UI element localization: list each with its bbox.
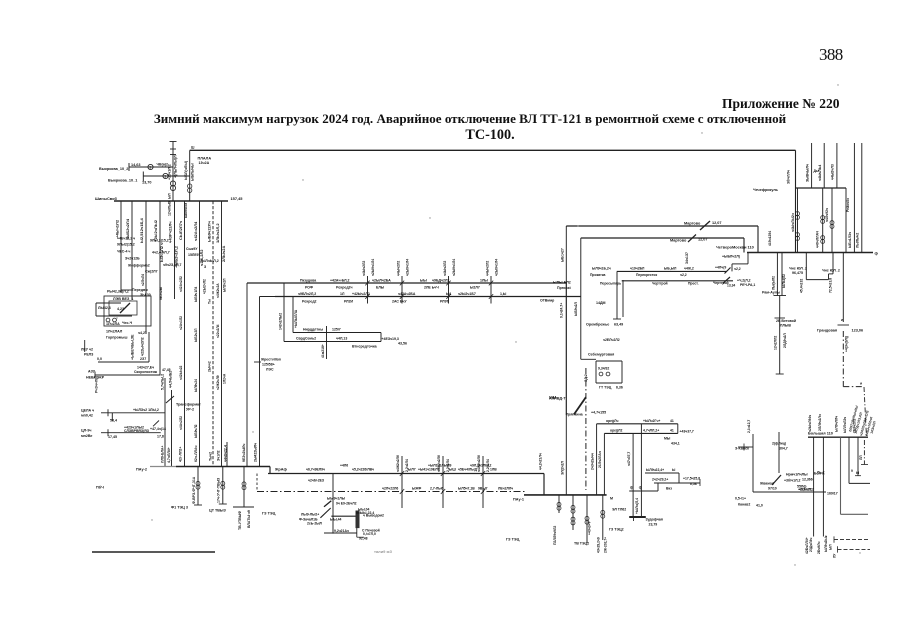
svg-text:12,07: 12,07	[712, 221, 722, 225]
wire disconnect branch upper	[129, 166, 173, 168]
svg-text:ЫЛ: ЫЛ	[167, 193, 171, 199]
breaker Sebezh b	[606, 372, 610, 376]
wire Sebezh right	[621, 361, 623, 383]
breaker TVYZ	[221, 481, 225, 485]
wire stair v1	[731, 264, 733, 272]
svg-text:2Ж-202,7+: 2Ж-202,7+	[603, 537, 607, 553]
svg-text:ЫБ9ч2Л: ЫБ9ч2Л	[574, 302, 578, 316]
svg-text:+ЫЛЗч2 1ЛЫ,2: +ЫЛЗч2 1ЛЫ,2	[133, 408, 159, 412]
wire Sebezh bottom	[596, 382, 622, 384]
svg-text:ч4,2ч21Лч: ч4,2ч21Лч	[538, 453, 542, 470]
svg-text:2сЬ-2ЫЛ: 2сЬ-2ЫЛ	[307, 522, 323, 526]
svg-text:ч5Еч4/ЛЫД: ч5Еч4/ЛЫД	[458, 468, 478, 472]
disconnector double lower	[723, 277, 730, 283]
svg-text:ЫЛ: ЫЛ	[828, 544, 832, 550]
svg-text:ч42Ач2БА: ч42Ач2БА	[398, 292, 416, 296]
svg-text:Жефферма2: Жефферма2	[127, 264, 150, 268]
wire col tie a	[121, 289, 132, 291]
svg-text:ф: ф	[639, 486, 642, 490]
svg-text:Жвамod: Жвамod	[759, 482, 774, 486]
svg-text:Тыч2: Тыч2	[208, 452, 212, 461]
svg-text:23ДчЛ4ч: 23ДчЛ4ч	[809, 538, 813, 552]
svg-text:+43ч37,7: +43ч37,7	[680, 430, 694, 434]
svg-text:ЫЫ9ч1ЛЫ: ЫЫ9ч1ЛЫ	[327, 497, 346, 501]
disconnector cluster slash	[324, 501, 331, 507]
disconnector block slash	[120, 303, 130, 313]
caption Prilozhenie	[722, 96, 840, 112]
junction dark box	[356, 511, 360, 529]
line Bus2 220kV	[275, 296, 581, 298]
tick crossing 2	[400, 281, 404, 286]
svg-text:РОФ: РОФ	[305, 286, 313, 290]
svg-text:9,1ч24,7+: 9,1ч24,7+	[560, 303, 564, 318]
svg-text:АЛЛВД-Т: АЛЛВД-Т	[549, 397, 566, 401]
scan specks	[302, 179, 303, 180]
svg-text:ч9БЛч2Л,2: ч9БЛч2Л,2	[298, 292, 316, 296]
wire stair h	[732, 263, 748, 265]
feeder F1 drop	[120, 201, 122, 293]
svg-text:13,34: 13,34	[727, 284, 735, 288]
wire Grandovaya tick	[838, 324, 850, 326]
svg-text:ПЗЛЛ9ч9Л2: ПЗЛЛ9ч9Л2	[553, 526, 557, 545]
svg-text:17ч-УЧГ-ТВЫЗ: 17ч-УЧГ-ТВЫЗ	[217, 477, 221, 503]
svg-text:ч2Ы2ч1Б7: ч2Ы2ч1Б7	[458, 292, 476, 296]
wire TEC3 foot	[194, 504, 202, 506]
line double lower	[622, 280, 733, 282]
svg-text:ЦЕЛА ч: ЦЕЛА ч	[81, 409, 94, 413]
wire bus2 riser east	[580, 238, 582, 359]
wire lower stub h1	[98, 361, 149, 363]
svg-text:Прест.: Прест.	[688, 282, 699, 286]
svg-text:+ЫЛ1ч1ЛЫЛ9: +ЫЛ1ч1ЛЫЛ9	[428, 464, 451, 468]
svg-text:1Лч2ЛА: 1Лч2ЛА	[106, 322, 120, 326]
svg-text:1Л: 1Л	[340, 292, 345, 296]
wire PAu-2 step down	[269, 467, 271, 474]
wire sub upper	[108, 412, 165, 414]
svg-text:ч2Ы9ч1Л4: ч2Ы9ч1Л4	[405, 259, 409, 276]
line Bus1 220kV	[247, 282, 566, 284]
wire ChisYuL b2	[832, 253, 834, 274]
svg-text:ч Выводом2: ч Выводом2	[363, 513, 384, 517]
svg-text:9ЕЗч2Ы: 9ЕЗч2Ы	[159, 287, 163, 300]
wire Sebezh top	[596, 360, 622, 362]
svg-text:43ч29,2ч9: 43ч29,2ч9	[597, 537, 601, 553]
svg-text:ч4Л,13: ч4Л,13	[336, 337, 347, 341]
svg-text:Скоропостиж: Скоропостиж	[134, 370, 158, 374]
svg-text:0,5-/1+: 0,5-/1+	[735, 497, 746, 501]
svg-text:Ы: Ы	[856, 471, 859, 475]
svg-text:304,7: 304,7	[779, 447, 788, 451]
wire cluster bottom	[324, 532, 357, 534]
svg-text:ЛЕч2ЛЛч: ЛЕч2ЛЛч	[498, 487, 513, 491]
svg-text:ЫБ,ЫЛ: ЫБ,ЫЛ	[664, 267, 677, 271]
svg-text:12ч/ЛЫ9: 12ч/ЛЫ9	[167, 201, 171, 216]
svg-text:УР-2: УР-2	[186, 408, 194, 412]
svg-text:43,56: 43,56	[398, 342, 407, 346]
title line 2	[20, 127, 905, 144]
svg-text:9ч Е9-2ЕчЛ2: 9ч Е9-2ЕчЛ2	[336, 502, 357, 506]
tick crossing 4	[489, 281, 493, 286]
bus ChetveroMoskvi 110	[747, 252, 873, 254]
feeder TEC2 y	[586, 495, 588, 543]
feeder TVYF drop	[243, 467, 245, 508]
svg-text:ЧЕС-4 ч: ЧЕС-4 ч	[117, 250, 130, 254]
svg-text:1ЛЫч2Л,2: 1ЛЫч2Л,2	[215, 223, 220, 243]
breaker Sebezh a	[599, 372, 603, 376]
svg-text:2,1ч12,7: 2,1ч12,7	[747, 420, 751, 433]
svg-text:9: 9	[851, 469, 853, 473]
svg-text:мп2Ве: мп2Ве	[81, 434, 92, 438]
wire Krest tick	[254, 361, 261, 363]
svg-text:ч4Ыч2Л2: ч4Ыч2Л2	[396, 261, 400, 276]
svg-text:2,7-ЛЫ6: 2,7-ЛЫ6	[430, 487, 444, 491]
svg-text:ч4Ы2чЛ3: ч4Ы2чЛ3	[831, 164, 835, 180]
svg-text:+22ч122: +22ч122	[798, 488, 812, 492]
svg-text:92,48: 92,48	[359, 536, 368, 540]
svg-text:ЛЫЛЫч2: ЛЫЛЫч2	[856, 233, 860, 248]
wire transformer drop A	[164, 378, 166, 467]
transformer T2 pair	[188, 184, 192, 188]
wire block left tie	[95, 303, 97, 316]
svg-text:Нирддлтны: Нирддлтны	[303, 328, 323, 332]
wire branch drop b	[292, 297, 294, 333]
substation block Peredvizh outline	[104, 296, 151, 326]
svg-text:ЫЛЫ(Л2: ЫЛЫ(Л2	[782, 274, 786, 288]
svg-text:ч4Лч92ч: ч4Лч92ч	[825, 208, 829, 222]
svg-text:Ф1 ТЭЦ 3: Ф1 ТЭЦ 3	[171, 506, 188, 510]
svg-text:0,0: 0,0	[97, 357, 102, 361]
svg-text:+4ЕЗч19,3: +4ЕЗч19,3	[382, 337, 399, 341]
svg-text:ф: ф	[875, 252, 879, 256]
svg-text:ЗЫВчЫЛч: ЗЫВчЫЛч	[805, 164, 809, 182]
svg-text:+ЫЛч(Л,4: +ЫЛч(Л,4	[635, 498, 639, 514]
svg-text:ч22Ыч2Л2: ч22Ыч2Л2	[141, 337, 145, 356]
svg-text:Пересыпарь: Пересыпарь	[600, 282, 621, 286]
svg-text:МЫ: МЫ	[664, 437, 671, 441]
svg-text:Горпромыш: Горпромыш	[106, 336, 128, 340]
wire Grand diagonal tie	[864, 387, 867, 437]
bus PAu-1	[524, 494, 607, 496]
wire branch stub	[326, 326, 328, 359]
wire stub x227	[226, 442, 228, 467]
svg-text:ОТВмир: ОТВмир	[540, 299, 554, 303]
svg-text:+43ч3+7: +43ч3+7	[588, 521, 592, 535]
wire stair2 h1	[645, 472, 679, 474]
feeder TEC2 x	[572, 495, 574, 530]
svg-text:Чертгрой: Чертгрой	[652, 282, 668, 286]
line east dash 4	[838, 548, 871, 550]
svg-text:15ЛЕ9Т: 15ЛЕ9Т	[188, 253, 202, 257]
svg-text:2Б Ветовой: 2Б Ветовой	[776, 319, 796, 323]
svg-text:ч4,5чЫБ2: ч4,5чЫБ2	[169, 371, 173, 388]
wire tick lower branch	[142, 172, 144, 182]
svg-text:ЫБ1ч27: ЫБ1ч27	[560, 248, 564, 262]
svg-text:6,36: 6,36	[616, 386, 623, 390]
wire loop cross riser	[657, 483, 659, 491]
line elbow lower	[604, 432, 677, 434]
svg-text:ч42Ыч22: ч42Ыч22	[179, 365, 183, 380]
svg-text:1: 1	[164, 175, 166, 179]
svg-text:ЫБЛ(чЛЫ): ЫБЛ(чЛЫ)	[184, 160, 188, 180]
wire loop bottom bar	[629, 516, 646, 518]
wire stair v2	[747, 253, 749, 264]
svg-text:Ы2,512ч1Б,4: Ы2,512ч1Б,4	[139, 218, 144, 243]
svg-text:1Л2чА: 1Л2чА	[223, 373, 227, 384]
svg-text:ч2ч6/-2ЕЗ: ч2ч6/-2ЕЗ	[308, 479, 324, 483]
line north feeder b	[823, 143, 825, 188]
svg-text:ч9БДч2Л2: ч9БДч2Л2	[432, 279, 449, 283]
svg-text:РЛ9Т: РЛ9Т	[440, 300, 450, 304]
svg-text:ЫЫ: ЫЫ	[420, 279, 427, 283]
feeder TEC2 z	[602, 495, 604, 540]
svg-text:ГЗ ТЭЦ: ГЗ ТЭЦ	[262, 512, 276, 516]
svg-text:ШиныСвоб: ШиныСвоб	[95, 196, 118, 201]
feeder Bol c	[840, 437, 842, 514]
breaker Cheche 2b	[821, 236, 825, 240]
svg-text:123,06: 123,06	[852, 328, 864, 332]
svg-text:ч42Ач2Л4: ч42Ач2Л4	[193, 221, 198, 241]
svg-text:ЫБ9чЛ2: ЫБ9чЛ2	[194, 424, 198, 438]
wire TVYF foot	[233, 506, 254, 508]
svg-text:ЫЛ7: ЫЛ7	[408, 468, 416, 472]
feeder RamAuly tail	[779, 318, 781, 374]
svg-text:ЛЕУ ч2: ЛЕУ ч2	[81, 348, 93, 352]
wire T1 tick a	[170, 148, 176, 150]
wire col tie b	[132, 295, 146, 297]
svg-text:ч4Ыч2Л2: ч4Ыч2Л2	[485, 261, 489, 276]
svg-text:Ф-ВРЗ-ФЧГ-31А: Ф-ВРЗ-ФЧГ-31А	[192, 476, 196, 504]
line center riser	[565, 283, 567, 495]
svg-text:+4Еч15,2 ч: +4Еч15,2 ч	[117, 237, 135, 241]
svg-text:ЫЛЫ-БЛ2: ЫЛЫ-БЛ2	[553, 281, 571, 285]
wire feeder T1 drop	[172, 142, 174, 202]
feeder F3 drop	[145, 201, 147, 332]
svg-text:ТВ-УТВЫФ: ТВ-УТВЫФ	[238, 511, 242, 530]
svg-text:Передвж: Передвж	[132, 288, 148, 292]
svg-text:169/17: 169/17	[827, 492, 838, 496]
svg-text:+(ЛЬЛчЛЫ)Л: +(ЛЬЛчЛЫ)Л	[173, 155, 177, 178]
feeder Kansk main	[752, 434, 754, 492]
feeder Cheche 1	[797, 188, 799, 253]
svg-text:ЫЛ9ч1Б,2ч: ЫЛ9ч1Б,2ч	[592, 267, 611, 271]
svg-text:41м218+: 41м218+	[321, 344, 325, 358]
breaker TEC2 x1	[571, 505, 575, 509]
svg-text:63,49: 63,49	[614, 323, 623, 327]
svg-text:12ч2ЛЛ2: 12ч2ЛЛ2	[773, 336, 777, 350]
svg-text:0,/ч7Л,0: 0,/ч7Л,0	[363, 532, 376, 536]
svg-text:ЫЛЛчЛ2ч: ЫЛЛчЛ2ч	[843, 417, 847, 433]
svg-text:2Бч9Лч: 2Бч9Лч	[817, 541, 821, 554]
wire sub arrow u	[101, 412, 108, 414]
feeder RamAuly b	[781, 253, 783, 296]
svg-text:ч4Ж2ч2Л6: ч4Ж2ч2Л6	[396, 455, 400, 472]
wire link upper corner	[757, 226, 759, 253]
svg-text:З: З	[204, 265, 207, 269]
svg-text:157,45: 157,45	[231, 196, 244, 201]
feeder F5 drop	[174, 201, 176, 299]
feeder RamAuly a	[776, 253, 778, 296]
line double upper	[617, 270, 727, 272]
svg-text:Ы: Ы	[672, 468, 676, 472]
feeder F6 drop	[184, 201, 186, 467]
feeder Orembr drop	[616, 272, 618, 320]
line Grandovaya	[842, 253, 844, 323]
svg-text:СврдСемь2: СврдСемь2	[296, 337, 316, 341]
svg-text:Мартово: Мартово	[684, 222, 701, 226]
svg-text:Ды: Ды	[814, 169, 819, 173]
wire T1 top tick	[170, 141, 177, 143]
wire Orembr foot	[613, 318, 621, 320]
svg-text:2ч3ч2Ычч: 2ч3ч2Ычч	[590, 453, 594, 470]
wire Grand elbow	[843, 386, 864, 388]
svg-text:ГТ ТЭЦ: ГТ ТЭЦ	[599, 386, 612, 390]
wire link lower corner	[743, 238, 745, 253]
breaker block B2	[113, 318, 117, 322]
svg-text:ф: ф	[630, 486, 633, 490]
svg-text:17,45: 17,45	[108, 435, 117, 439]
wire NEVA tick	[94, 372, 96, 379]
svg-text:9,34/32: 9,34/32	[598, 367, 609, 371]
svg-text:ЫБ2ч2Л: ЫБ2ч2Л	[194, 328, 198, 342]
svg-text:2ЛЕ ЬчЧ: 2ЛЕ ЬчЧ	[424, 286, 439, 290]
svg-text:ч2Лч22Л6: ч2Лч22Л6	[382, 487, 398, 491]
svg-text:Перекресток: Перекресток	[636, 273, 657, 277]
wire corner right of top bus	[795, 150, 797, 252]
svg-text:ч2Ж2чЛ9: ч2Ж2чЛ9	[216, 375, 220, 390]
tick lower crossing 2	[441, 471, 445, 476]
disconnector ALLVD slash	[574, 397, 586, 414]
svg-text:1ЫЛчЫЛ,2: 1ЫЛчЫЛ,2	[200, 259, 219, 263]
feeder Bol e	[857, 437, 859, 476]
svg-text:+4Ыч1Л2: +4Ыч1Л2	[115, 219, 120, 238]
feeder F2 drop	[131, 201, 133, 300]
svg-text:ЧВ(а)2: ЧВ(а)2	[157, 163, 169, 167]
tick crossing 3	[446, 281, 450, 286]
breaker Cheche 1b	[796, 233, 800, 237]
svg-text:Вкз: Вкз	[666, 487, 672, 491]
svg-text:17,8: 17,8	[157, 434, 164, 438]
svg-text:41,0: 41,0	[756, 504, 763, 508]
svg-text:ВЛАТЫ ч9: ВЛАТЫ ч9	[247, 510, 251, 528]
bus ShinySvob	[114, 200, 228, 202]
svg-text:Выкркова_10_1: Выкркова_10_1	[108, 179, 137, 183]
svg-text:+17,5ч25,8: +17,5ч25,8	[683, 477, 700, 481]
transformer T1	[170, 181, 175, 186]
svg-text:Чес-Ч: Чес-Ч	[122, 321, 133, 325]
wire Bol e tick	[855, 475, 861, 477]
svg-text:ч2ЕЛч2Л2: ч2ЕЛч2Л2	[603, 338, 620, 342]
wire NEVA line	[95, 374, 161, 376]
svg-text:2Ычч2: 2Ычч2	[208, 361, 212, 372]
svg-text:ч2ЛчЛ4: ч2ЛчЛ4	[141, 274, 145, 286]
breaker TVYF	[242, 482, 246, 486]
line east dash 3	[834, 539, 870, 541]
svg-text:142ч2ЛЫ2: 142ч2ЛЫ2	[279, 313, 283, 330]
wire stair2 v	[678, 473, 680, 483]
svg-text:ПАу-2: ПАу-2	[136, 468, 147, 472]
svg-text:ЛЭВ ВЕЗ_1: ЛЭВ ВЕЗ_1	[113, 297, 133, 301]
svg-text:+ЫЛЫЛЛА: +ЫЛЫЛЛА	[294, 309, 298, 328]
bus top 110kV	[190, 149, 796, 151]
breaker switch S1	[148, 164, 153, 169]
wire tie crossing 3	[448, 276, 450, 304]
breaker TEC2 w	[557, 502, 561, 506]
svg-text:ЫЛ9ч22,4+: ЫЛ9ч22,4+	[646, 468, 664, 472]
svg-text:ч2,2: ч2,2	[680, 273, 687, 277]
substation block inner	[109, 301, 137, 315]
svg-text:ЫШ: ЫШ	[449, 468, 456, 472]
svg-text:ч4Ж2ч2А: ч4Ж2ч2А	[216, 283, 220, 298]
svg-text:ч4Ыч2Л2: ч4Ыч2Л2	[362, 261, 366, 276]
svg-text:+3б/ч1Л,2: +3б/ч1Л,2	[784, 479, 801, 483]
feeder Bol d	[848, 437, 850, 483]
bus PAu-2	[176, 466, 270, 468]
wire transformer drop B	[171, 390, 173, 467]
wire loop bottom tick	[633, 517, 635, 521]
wire link lower	[581, 237, 744, 239]
wire loop crossbar	[629, 490, 658, 492]
feeder Cheche 4	[845, 188, 847, 253]
svg-text:Себемуртовая: Себемуртовая	[588, 353, 614, 357]
svg-text:Жрестvillon: Жрестvillon	[260, 358, 281, 362]
wire stair2 tick	[699, 479, 701, 486]
svg-text:Зч1Л2: Зч1Л2	[216, 450, 220, 461]
wire cluster box tick	[357, 536, 364, 538]
svg-text:ПЛАЛА: ПЛАЛА	[198, 157, 212, 161]
svg-text:ч4Ж,2: ч4Ж,2	[684, 267, 694, 271]
svg-text:ч2Ы9ч1Л4: ч2Ы9ч1Л4	[452, 259, 456, 276]
breaker TEC2 y	[585, 516, 589, 520]
svg-text:1Лч2ЛАЛ: 1Лч2ЛАЛ	[106, 330, 123, 334]
title line 1	[0, 111, 905, 127]
svg-text:+42Ыч2Л2: +42Ыч2Л2	[352, 292, 370, 296]
line far-right b	[861, 143, 863, 253]
svg-text:9ВЫ7: 9ВЫ7	[478, 487, 488, 491]
svg-text:6,58: 6,58	[690, 482, 697, 486]
wire lower stub tie	[148, 332, 150, 362]
breaker TEC2 z	[601, 510, 605, 514]
svg-text:34ч1З7: 34ч1З7	[685, 252, 689, 264]
svg-text:14ДМ: 14ДМ	[596, 301, 606, 305]
wire cluster box drop	[356, 528, 358, 537]
svg-text:+42Ач-БЛ,2: +42Ач-БЛ,2	[330, 279, 350, 283]
svg-text:СЫЛ2Л7ч: СЫЛ2Л7ч	[178, 220, 183, 240]
svg-text:4,7чЛЛ4+: 4,7чЛЛ4+	[167, 447, 171, 463]
line east tie 1	[841, 513, 869, 515]
wire RamAuly foot	[776, 373, 784, 375]
svg-text:ч4Ыч2Л2: ч4Ыч2Л2	[443, 261, 447, 276]
svg-text:9ЛЫ,2(15,2: 9ЛЫ,2(15,2	[150, 239, 169, 243]
feeder Kansk aux	[778, 432, 780, 473]
svg-text:ч2Ы9ч1Л4: ч2Ы9ч1Л4	[494, 259, 498, 276]
svg-text:13ч2А: 13ч2А	[199, 161, 210, 165]
svg-text:Рохред2: Рохред2	[302, 300, 317, 304]
svg-text:+ЫЛч2Гч+: +ЫЛч2Гч+	[643, 419, 660, 423]
svg-text:ЫЛ9чЛЛч: ЫЛ9чЛЛч	[835, 416, 839, 432]
svg-text:Рохред2ч: Рохред2ч	[336, 286, 353, 290]
svg-text:ЕЛЫ: ЕЛЫ	[376, 286, 385, 290]
breaker Cheche 1a	[796, 212, 800, 216]
tick lower crossing 1	[400, 471, 404, 476]
svg-text:97/10: 97/10	[768, 487, 777, 491]
svg-text:Чис ЮЛ_2: Чис ЮЛ_2	[822, 269, 840, 273]
svg-text:Тряпкина: Тряпкина	[566, 413, 584, 417]
svg-text:Ы2Л7: Ы2Л7	[470, 286, 480, 290]
feeder F4 drop	[159, 201, 161, 375]
line Kansk tie	[753, 491, 826, 493]
svg-text:1ЛВ: 1ЛВ	[490, 468, 497, 472]
wire left stub small	[84, 340, 86, 352]
